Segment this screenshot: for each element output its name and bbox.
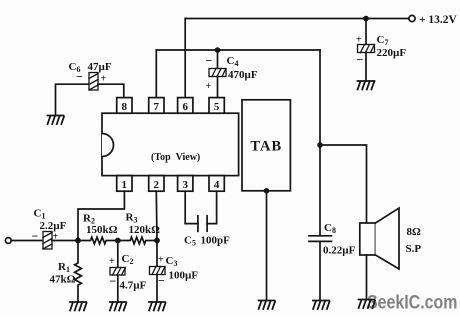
IC U1 body (DIP-8, top view) bbox=[102, 113, 239, 175]
wire: C2 to ground bbox=[117, 275, 119, 302]
pin 8 box bbox=[117, 98, 132, 114]
pin 6 box bbox=[178, 98, 193, 114]
ground below speaker bbox=[359, 300, 376, 309]
svg-text:−: − bbox=[158, 274, 165, 288]
ground below C2 bbox=[110, 302, 127, 311]
svg-text:3: 3 bbox=[182, 179, 188, 191]
svg-text:+: + bbox=[109, 256, 115, 267]
TAB block bbox=[242, 100, 290, 191]
svg-text:8Ω: 8Ω bbox=[407, 226, 422, 238]
svg-text:120kΩ: 120kΩ bbox=[129, 224, 161, 236]
junction: C1/R1/R2/pin1 node bbox=[75, 238, 81, 244]
svg-text:(Top View): (Top View) bbox=[151, 152, 200, 163]
svg-text:+ 13.2V: + 13.2V bbox=[419, 14, 458, 26]
svg-text:5: 5 bbox=[214, 101, 220, 113]
svg-text:2: 2 bbox=[154, 179, 160, 191]
wire: C4 to pin 5 bbox=[217, 77, 219, 98]
resistor R3 (120k) bbox=[118, 237, 157, 244]
svg-text:SeekIC.com: SeekIC.com bbox=[367, 291, 457, 313]
wire: pin 1 elbow to input junction bbox=[78, 191, 124, 240]
ground below C7 bbox=[358, 81, 375, 90]
wire: pin 4 down to C5 bbox=[207, 191, 217, 223]
pin 2 box bbox=[149, 176, 164, 192]
capacitor C8 (0.22uF) bbox=[309, 236, 332, 242]
svg-text:−: − bbox=[110, 274, 117, 288]
wire: junction down to C3 bbox=[156, 241, 158, 267]
wire: pin 2 down to junction bbox=[155, 191, 158, 240]
svg-text:470µF: 470µF bbox=[228, 69, 258, 81]
capacitor C6 (electrolytic 47uF) bbox=[89, 73, 98, 91]
svg-text:150kΩ: 150kΩ bbox=[86, 224, 118, 236]
ground at C6 (top left) bbox=[48, 116, 65, 125]
wire: pin 3 down to C5 bbox=[185, 191, 198, 223]
junction: top rail / C7 tap bbox=[363, 16, 369, 22]
wire: output node to speaker bbox=[320, 145, 367, 223]
capacitor C2 (electrolytic 4.7uF) bbox=[110, 268, 126, 276]
wire: right drop from mid rail to output node bbox=[319, 50, 321, 145]
resistor R2 (150k) bbox=[78, 237, 118, 244]
resistor R1 (47k) bbox=[75, 241, 82, 303]
svg-text:+: + bbox=[356, 35, 362, 46]
junction: R2/R3/C2 node bbox=[115, 238, 121, 244]
wire: pin 6 riser to top rail bbox=[184, 19, 186, 98]
capacitor C5 (100pF) bbox=[198, 216, 207, 232]
capacitor C7 (electrolytic 220uF) bbox=[358, 45, 375, 53]
wire: C8 to ground bbox=[319, 241, 321, 300]
wire: junction down to C2 bbox=[117, 241, 119, 268]
svg-text:220µF: 220µF bbox=[377, 47, 407, 59]
junction: mid rail / C4 tap bbox=[215, 47, 221, 53]
svg-text:−: − bbox=[206, 54, 213, 68]
svg-text:7: 7 bbox=[154, 101, 160, 113]
wire: C7 to ground bbox=[365, 53, 367, 82]
svg-text:4.7µF: 4.7µF bbox=[120, 280, 147, 292]
svg-text:S.P: S.P bbox=[406, 243, 422, 255]
svg-text:1: 1 bbox=[122, 179, 128, 191]
pin 5 box bbox=[209, 98, 224, 114]
svg-text:4: 4 bbox=[214, 179, 220, 191]
IC notch bbox=[102, 134, 114, 157]
svg-text:+: + bbox=[206, 81, 212, 92]
svg-text:−: − bbox=[32, 229, 39, 243]
wire: ground up and over to C6 bbox=[56, 84, 90, 115]
speaker cone bbox=[376, 208, 400, 269]
ground below C8 bbox=[313, 301, 330, 310]
capacitor C4 (electrolytic 470uF) bbox=[209, 69, 226, 77]
wire: mid rail y=50 from pin7 to right drop bbox=[156, 49, 320, 51]
ground below TAB bbox=[259, 301, 276, 310]
svg-text:+: + bbox=[53, 232, 59, 243]
svg-text:−: − bbox=[76, 70, 83, 84]
svg-text:8: 8 bbox=[122, 101, 128, 113]
junction: output node bbox=[317, 142, 323, 148]
speaker SP frame bbox=[360, 223, 376, 255]
pin 7 box bbox=[149, 98, 164, 114]
wire: TAB to ground bbox=[266, 191, 268, 301]
svg-text:47kΩ: 47kΩ bbox=[50, 274, 76, 286]
svg-text:+: + bbox=[101, 74, 107, 85]
wire: output node down to C8 bbox=[319, 145, 321, 236]
pin 4 box bbox=[209, 176, 224, 192]
svg-text:TAB: TAB bbox=[250, 139, 282, 155]
wire: speaker to ground bbox=[366, 255, 368, 300]
svg-text:100pF: 100pF bbox=[201, 235, 231, 247]
capacitor C3 (electrolytic 100uF) bbox=[150, 267, 166, 275]
ground below R1 bbox=[70, 302, 87, 311]
terminal: +13.2V open circle bbox=[409, 15, 415, 21]
svg-text:2.2µF: 2.2µF bbox=[40, 220, 67, 232]
terminal: audio input open circle bbox=[5, 238, 11, 244]
pin 3 box bbox=[178, 176, 193, 192]
wire: +13.2V top supply rail bbox=[185, 18, 408, 20]
capacitor C1 (electrolytic 2.2uF) bbox=[43, 232, 52, 250]
wire: C6 to pin 8 bbox=[98, 84, 124, 97]
wire: C1 to input junction bbox=[52, 240, 78, 242]
wire: junction down to C7 bbox=[365, 19, 367, 45]
wire: C3 to ground bbox=[156, 275, 158, 303]
svg-text:47µF: 47µF bbox=[88, 61, 112, 73]
wire: pin 7 riser bbox=[155, 50, 157, 98]
pin 1 box bbox=[117, 176, 132, 192]
svg-text:100µF: 100µF bbox=[169, 270, 199, 282]
svg-text:6: 6 bbox=[182, 101, 188, 113]
wire: junction down to C4 bbox=[217, 50, 219, 69]
wire: input to C1 bbox=[11, 240, 43, 242]
svg-text:0.22µF: 0.22µF bbox=[323, 245, 356, 257]
svg-text:−: − bbox=[357, 53, 364, 67]
junction: R3/C3/pin2 node bbox=[154, 238, 160, 244]
svg-text:+: + bbox=[158, 255, 164, 266]
ground below C3 bbox=[149, 302, 166, 311]
junction: TAB bottom bbox=[264, 188, 270, 194]
